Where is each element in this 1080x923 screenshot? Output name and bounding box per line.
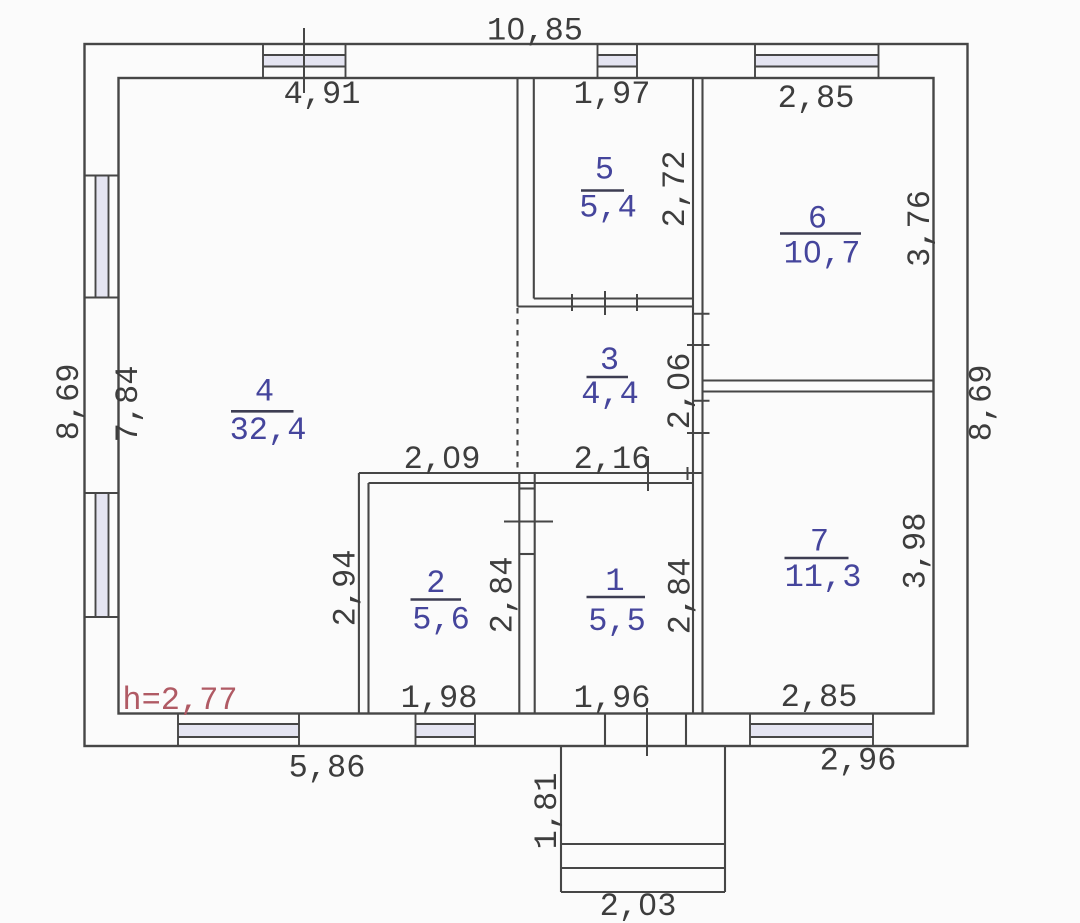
svg-text:7,84: 7,84: [110, 366, 147, 443]
svg-text:1,97: 1,97: [574, 76, 651, 113]
svg-text:2,09: 2,09: [404, 441, 481, 478]
dimension texts horizontal: [122, 13, 896, 923]
tick dim 4,91 window W1: [303, 28, 305, 93]
svg-text:5,6: 5,6: [412, 602, 470, 639]
inner wall: [119, 78, 934, 714]
svg-text:6: 6: [808, 201, 827, 238]
zero dot patches: [449, 25, 816, 910]
tick door room5 center: [604, 291, 606, 315]
tick entrance door: [646, 708, 648, 756]
interior walls: [359, 78, 934, 746]
wall F: room2 left: [358, 473, 360, 714]
window W1 top: [263, 44, 346, 78]
svg-text:5,5: 5,5: [588, 603, 646, 640]
tick door room5 right jamb: [636, 294, 638, 311]
svg-text:h=2,77: h=2,77: [122, 682, 237, 719]
svg-text:4,91: 4,91: [284, 76, 361, 113]
svg-text:2,94: 2,94: [328, 550, 365, 627]
window W3 top: [755, 44, 879, 78]
svg-text:5,4: 5,4: [579, 190, 637, 227]
wall C: between 5 and 3: [534, 297, 693, 299]
dimension texts rotated: [51, 151, 1001, 850]
svg-text:10,7: 10,7: [784, 236, 861, 273]
tick door room5 left jamb: [571, 294, 573, 311]
tick wall B segment a: [693, 313, 710, 315]
room labels: [230, 152, 862, 641]
wall D: between 6 and 7: [703, 379, 934, 381]
svg-text:1,96: 1,96: [574, 680, 651, 717]
svg-text:32,4: 32,4: [230, 412, 307, 449]
tick wall B segment b: [693, 400, 710, 402]
svg-text:1: 1: [605, 563, 624, 600]
svg-text:2,06: 2,06: [662, 353, 699, 430]
svg-text:2,85: 2,85: [778, 80, 855, 117]
tick corridor door jamb: [687, 467, 689, 480]
svg-text:8,69: 8,69: [964, 365, 1001, 442]
window W8 bottom: [750, 714, 873, 747]
bottom door jambs: [604, 714, 606, 747]
svg-text:2,84: 2,84: [663, 558, 700, 635]
svg-text:1,98: 1,98: [401, 680, 478, 717]
svg-text:5,86: 5,86: [289, 750, 366, 787]
tick dim 2,16: [647, 456, 649, 491]
svg-text:3: 3: [600, 342, 619, 379]
svg-text:2,03: 2,03: [600, 888, 677, 923]
outer wall: [85, 44, 968, 746]
svg-text:4,4: 4,4: [581, 376, 639, 413]
dashed line room 3/4: [516, 308, 518, 473]
wall A: room5 left: [516, 78, 518, 307]
svg-text:11,3: 11,3: [785, 559, 862, 596]
svg-text:5: 5: [595, 152, 614, 189]
svg-text:2,85: 2,85: [781, 679, 858, 716]
wall E: corridor bottom: [359, 472, 703, 474]
window W5 left: [85, 493, 119, 617]
svg-text:7: 7: [810, 524, 829, 561]
svg-text:2,84: 2,84: [485, 557, 522, 634]
porch: [561, 746, 725, 892]
svg-text:2: 2: [426, 565, 445, 602]
svg-text:2,16: 2,16: [574, 441, 651, 478]
svg-text:3,98: 3,98: [898, 513, 935, 590]
wall G: rooms 2/1: [518, 473, 520, 714]
svg-text:8,69: 8,69: [51, 364, 88, 441]
tick wall B door jamb b: [687, 432, 710, 434]
svg-text:2,72: 2,72: [657, 151, 694, 228]
tick wall B door jamb a: [687, 344, 710, 346]
svg-text:10,85: 10,85: [487, 13, 583, 50]
svg-text:1,81: 1,81: [529, 773, 566, 850]
wall B: vertical rooms5/3 vs 6/7: [692, 78, 694, 714]
window W7 bottom: [416, 714, 476, 747]
window W6 bottom: [178, 714, 299, 747]
svg-text:3,76: 3,76: [902, 190, 939, 267]
svg-text:2,96: 2,96: [820, 743, 897, 780]
tick door rooms 1-2: [504, 521, 553, 523]
window W2 top: [598, 44, 638, 78]
window W4 left: [85, 175, 119, 298]
svg-text:4: 4: [255, 374, 274, 411]
